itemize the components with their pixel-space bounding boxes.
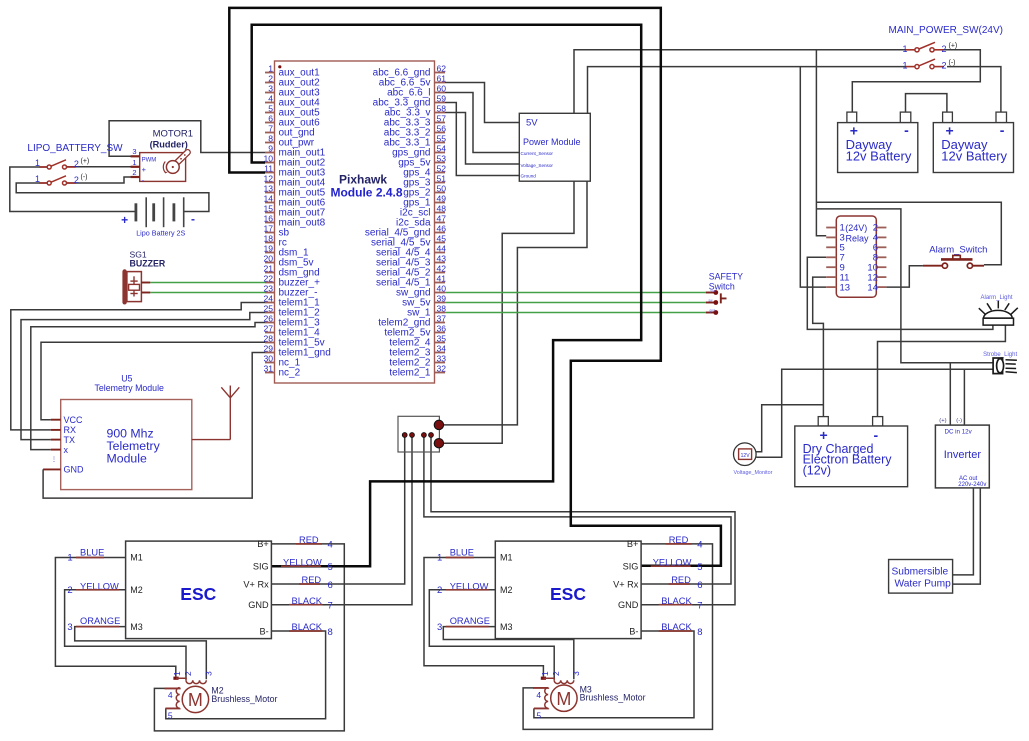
svg-text:20: 20 — [263, 254, 273, 264]
wire switch row2 to Dayway battery2 - — [947, 67, 1001, 113]
pixhawk pin 2 aux_out2 — [265, 82, 275, 84]
pixhawk pin 46 serial_4/5_gnd — [435, 232, 446, 234]
wire MAIN- branch down to relay pin13 — [800, 67, 826, 288]
svg-text:33: 33 — [437, 354, 447, 364]
svg-text:M: M — [188, 690, 203, 710]
svg-text:M2: M2 — [500, 585, 513, 595]
wire pixhawk pin61 to 5V module — [445, 83, 519, 123]
wire ESC1 M1 to motor M2 coil pin1 — [55, 558, 175, 677]
wire MAIN+ branch to alarm switch right terminal — [816, 202, 1001, 264]
svg-text:ORANGE: ORANGE — [80, 616, 120, 626]
pixhawk pin 59 abc_3.3_gnd — [435, 102, 446, 104]
svg-text:Inverter: Inverter — [944, 449, 982, 461]
relay pin 2 — [876, 227, 886, 229]
svg-text:B+: B+ — [257, 539, 269, 549]
wire LIPO switch row2 pin1 to Lipo battery - — [16, 183, 209, 212]
svg-text:42: 42 — [437, 264, 447, 274]
pixhawk pin 37 telem2_gnd — [435, 322, 446, 324]
svg-text:8: 8 — [268, 134, 273, 144]
svg-text:19: 19 — [263, 244, 273, 254]
wire ESC2 B+ to motor M3 pin4 — [523, 544, 712, 730]
svg-text:2: 2 — [437, 585, 442, 596]
wire relay pin11 to Dry battery + — [813, 277, 827, 417]
wire ESC2 B- to motor M3 pin5 — [534, 631, 694, 718]
svg-text:(+): (+) — [949, 43, 958, 50]
svg-text:18: 18 — [263, 234, 273, 244]
U? 5V Power Module body — [519, 113, 590, 181]
relay pin 3 — [826, 236, 836, 238]
wire pixhawk pin9 main_out1 to MOTOR1 PWM loop — [109, 121, 265, 157]
svg-text:5: 5 — [697, 562, 702, 573]
motor M2 pin1 dot — [173, 677, 178, 680]
svg-text:14: 14 — [867, 282, 878, 293]
svg-text:(+): (+) — [939, 418, 946, 424]
pixhawk pin 62 abc_6.6_gnd — [435, 72, 446, 74]
pixhawk pin 1 aux_out1 — [265, 72, 275, 74]
wire ESC2 M2 to motor M3 coil pin2 — [429, 590, 554, 680]
pixhawk pin 28 telem1_5v — [265, 342, 275, 344]
wire pixhawk pin26 telem1_3 to telemetry x — [31, 323, 265, 450]
wire pixhawk pin60 to 5V module Current_Sensor — [445, 93, 519, 153]
svg-text:49: 49 — [437, 194, 447, 204]
svg-text:B-: B- — [260, 626, 269, 636]
svg-text:5: 5 — [536, 711, 541, 721]
svg-text:4: 4 — [536, 690, 541, 700]
svg-text:4: 4 — [168, 690, 173, 700]
svg-text:10: 10 — [263, 154, 273, 164]
svg-text:+: + — [121, 213, 128, 227]
wire MAIN_POWER switch row2 (-) to 5V module top — [588, 67, 907, 114]
svg-text:17: 17 — [263, 224, 273, 234]
battery BT3 Dry Charged Electron Battery (12v) — [818, 417, 828, 426]
pixhawk pin 36 telem2_5v — [435, 332, 446, 334]
svg-text:(12v): (12v) — [803, 463, 831, 477]
svg-text:32: 32 — [437, 364, 447, 374]
wire pixhawk pin59 to 5V module Ground — [445, 103, 519, 176]
junction small dots — [402, 433, 407, 438]
svg-text:Ground: Ground — [521, 173, 537, 178]
svg-text:35: 35 — [437, 334, 447, 344]
svg-text:1: 1 — [172, 671, 182, 676]
pixhawk pin 47 i2c_sda — [435, 222, 446, 224]
svg-text:45: 45 — [437, 234, 447, 244]
wire pixhawk pin24 telem1_1 to telemetry RX — [11, 303, 265, 430]
svg-text:M2: M2 — [130, 585, 143, 595]
relay pin 4 — [876, 236, 886, 238]
svg-text:Power Module: Power Module — [523, 137, 581, 147]
svg-text:24: 24 — [263, 294, 273, 304]
telemetry pin x — [51, 449, 61, 451]
junction block body — [398, 416, 439, 452]
svg-text:1: 1 — [540, 671, 550, 676]
svg-text:Alarm_Light: Alarm_Light — [981, 295, 1013, 301]
motor M3 pin1 dot — [541, 677, 546, 680]
svg-text:x: x — [64, 445, 69, 455]
svg-text:GND: GND — [64, 465, 85, 475]
pixhawk pin 50 gps_2 — [435, 192, 446, 194]
battery BT1 Dayway 12v Battery — [847, 112, 857, 123]
svg-text:-: - — [1000, 122, 1005, 138]
svg-text:GND: GND — [248, 600, 269, 610]
pixhawk pin 8 out_pwr — [265, 142, 275, 144]
pixhawk pin 40 sw_gnd — [435, 292, 446, 294]
svg-text:PWM: PWM — [142, 157, 157, 163]
pixhawk pin 55 abc_3.3_1 — [435, 142, 446, 144]
ESC1 body — [126, 541, 272, 639]
svg-text:Brushless_Motor: Brushless_Motor — [580, 693, 646, 703]
svg-text:ESC: ESC — [180, 584, 216, 604]
svg-text:telem2_1: telem2_1 — [389, 367, 431, 378]
svg-text:1: 1 — [35, 158, 40, 168]
wire ESC2 GND to junction dot D — [431, 435, 735, 605]
pixhawk pin 39 sw_5v — [435, 302, 446, 304]
svg-text:3: 3 — [203, 671, 213, 676]
svg-text:7: 7 — [697, 601, 702, 612]
wire strobe lower branch to Inverter (-) — [963, 369, 965, 425]
svg-text:29: 29 — [263, 344, 273, 354]
svg-text:57: 57 — [437, 114, 447, 124]
pixhawk pin 33 telem2_2 — [435, 362, 446, 364]
wire Alarm_Light terminal 2 to Dry battery - — [878, 325, 1006, 417]
svg-text:M3: M3 — [130, 622, 143, 632]
svg-text:9: 9 — [268, 144, 273, 154]
svg-text:ORANGE: ORANGE — [450, 616, 490, 626]
svg-text:16: 16 — [263, 214, 273, 224]
svg-text:BUZZER: BUZZER — [130, 259, 166, 269]
wire pixhawk pin29 telem1_gnd to telemetry GND loop — [43, 353, 265, 499]
svg-text:3: 3 — [437, 622, 442, 633]
svg-text:6: 6 — [268, 114, 273, 124]
svg-text:37: 37 — [437, 314, 447, 324]
wire 5V module bottom pin1 to junction dot F — [439, 181, 574, 443]
relay pin 1 — [826, 227, 836, 229]
pixhawk pin 16 main_out8 — [265, 222, 275, 224]
svg-text:-: - — [191, 212, 195, 226]
motor M3 pin5 stub — [534, 707, 548, 709]
svg-text:Water Pump: Water Pump — [895, 579, 952, 590]
svg-text:3: 3 — [571, 671, 581, 676]
svg-text:1: 1 — [902, 61, 907, 71]
svg-text:60: 60 — [437, 84, 447, 94]
svg-text:(-): (-) — [81, 174, 88, 181]
svg-text:62: 62 — [437, 64, 447, 74]
svg-text:RX: RX — [64, 425, 77, 435]
svg-text:6: 6 — [328, 580, 333, 591]
wire green sw_1 pin38 to SAFETY switch — [445, 312, 706, 314]
svg-text:V+ Rx: V+ Rx — [243, 579, 269, 589]
telemetry pin RX — [51, 429, 61, 431]
wire ESC2 M3 to motor M3 coil pin3 — [443, 627, 574, 680]
svg-text:12v Battery: 12v Battery — [846, 148, 912, 163]
wire pixhawk pin25 telem1_2 to telemetry TX — [21, 313, 265, 440]
svg-text:44: 44 — [437, 244, 447, 254]
pixhawk pin 18 rc — [265, 242, 275, 244]
svg-text:Alarm_Switch: Alarm_Switch — [929, 245, 987, 256]
svg-text:sw: sw — [709, 298, 714, 302]
wire LIPO switch row1 to motor pin1 — [67, 166, 140, 168]
svg-text:54: 54 — [437, 144, 447, 154]
motor M3 pin4 stub — [533, 687, 548, 689]
svg-text:1: 1 — [67, 553, 72, 564]
svg-text:Lipo Battery 2S: Lipo Battery 2S — [136, 228, 185, 237]
pixhawk pin 41 serial_4/5_1 — [435, 282, 446, 284]
svg-text:7: 7 — [268, 124, 273, 134]
svg-text:220v-240v: 220v-240v — [958, 482, 986, 488]
relay K1 (24V) Relay body — [836, 216, 876, 297]
relay pin 8 — [876, 256, 886, 258]
svg-text:4: 4 — [697, 540, 702, 551]
pixhawk pin 31 nc_2 — [265, 372, 275, 374]
pixhawk pin 22 buzzer_+ — [265, 282, 275, 284]
junction big dot F — [434, 439, 443, 448]
svg-text:41: 41 — [437, 274, 447, 284]
inverter body — [935, 425, 989, 488]
pixhawk pin 51 gps_3 — [435, 182, 446, 184]
pixhawk pin 34 telem2_3 — [435, 352, 446, 354]
wire relay pin7 to Alarm_Light terminal 1 — [807, 257, 993, 329]
svg-text:(-): (-) — [956, 418, 962, 424]
svg-text:12v Battery: 12v Battery — [941, 148, 1007, 163]
relay pin 14 — [876, 286, 886, 288]
wire ESC1 GND to junction dot B — [271, 435, 412, 605]
relay pin 13 — [826, 286, 836, 288]
svg-text:-: - — [904, 122, 909, 138]
wire Dayway battery series link — [906, 94, 947, 113]
wire ESC1 B- to motor M2 pin5 — [166, 631, 326, 719]
svg-text:2: 2 — [132, 168, 136, 177]
svg-text:22: 22 — [263, 274, 273, 284]
telemetry pin GND — [43, 468, 61, 470]
svg-text:(24V): (24V) — [845, 223, 867, 233]
svg-text:25: 25 — [263, 304, 273, 314]
svg-text:40: 40 — [437, 284, 447, 294]
svg-text:SAFETY: SAFETY — [709, 271, 743, 281]
svg-text:13: 13 — [263, 184, 273, 194]
svg-text:28: 28 — [263, 334, 273, 344]
wire ESC2 M1 to motor M3 coil pin1 — [424, 558, 543, 677]
svg-text:8: 8 — [328, 627, 333, 638]
pixhawk pin 12 main_out4 — [265, 182, 275, 184]
svg-text:1: 1 — [437, 553, 442, 564]
svg-text:12: 12 — [263, 174, 273, 184]
wire switch row1 to Dayway battery1 + — [852, 50, 980, 112]
svg-text:56: 56 — [437, 124, 447, 134]
pixhawk pin 52 gps_4 — [435, 172, 446, 174]
IC U? Pixhawk Module 2.4.8 body — [275, 61, 435, 383]
svg-text:2: 2 — [74, 159, 79, 169]
svg-text:13: 13 — [840, 282, 851, 293]
wire pixhawk pin58 to 5V module Voltage_Sensor — [445, 113, 519, 165]
svg-text:Current_Sensor: Current_Sensor — [521, 151, 554, 156]
pixhawk pin 49 gps_1 — [435, 202, 446, 204]
wire ESC2 V+Rx to junction dot C — [424, 435, 731, 584]
pixhawk pin 20 dsm_5v — [265, 262, 275, 264]
pixhawk pin 48 i2c_scl — [435, 212, 446, 214]
svg-text:1: 1 — [268, 64, 273, 74]
svg-text:(+): (+) — [81, 158, 90, 165]
svg-text:DC in 12v: DC in 12v — [945, 429, 973, 436]
svg-text:50: 50 — [437, 184, 447, 194]
svg-text:14: 14 — [263, 194, 273, 204]
motor MOTOR1 pin 3 PWM — [131, 155, 140, 157]
svg-text:MAIN_POWER_SW(24V): MAIN_POWER_SW(24V) — [889, 25, 1003, 36]
buzzer pin + — [141, 282, 150, 284]
pixhawk pin 35 telem2_4 — [435, 342, 446, 344]
svg-text:ESC: ESC — [550, 584, 586, 604]
pixhawk pin 32 telem2_1 — [435, 372, 446, 374]
pixhawk pin 4 aux_out4 — [265, 102, 275, 104]
battery BT2 Dayway 12v Battery — [943, 112, 953, 123]
pixhawk pin 29 telem1_gnd — [265, 352, 275, 354]
svg-text:51: 51 — [437, 174, 447, 184]
pixhawk pin 17 sb — [265, 232, 275, 234]
svg-text:47: 47 — [437, 214, 447, 224]
svg-text:LIPO_BATTERY_SW: LIPO_BATTERY_SW — [27, 143, 123, 154]
wire ESC1 M3 to motor M2 coil pin3 — [75, 627, 207, 680]
svg-text:12V: 12V — [741, 453, 751, 459]
svg-text:15: 15 — [263, 204, 273, 214]
svg-text:2: 2 — [74, 175, 79, 185]
svg-text:3: 3 — [67, 622, 72, 633]
svg-text:Voltage_Sensor: Voltage_Sensor — [521, 163, 554, 168]
svg-text:vcc: vcc — [711, 289, 716, 293]
wire pixhawk pin28 telem1_5v to telemetry VCC — [41, 342, 265, 419]
pixhawk pin 14 main_out6 — [265, 202, 275, 204]
svg-text:34: 34 — [437, 344, 447, 354]
pixhawk pin 21 dsm_gnd — [265, 272, 275, 274]
svg-text:M: M — [556, 689, 571, 709]
svg-text:4: 4 — [328, 540, 333, 551]
svg-text:GND: GND — [618, 600, 639, 610]
pixhawk pin 13 main_out5 — [265, 192, 275, 194]
switch MAIN_POWER_SW row1 — [906, 49, 915, 51]
junction big dot E — [434, 420, 443, 429]
relay pin 10 — [876, 266, 886, 268]
svg-text:Module 2.4.8: Module 2.4.8 — [330, 186, 402, 200]
svg-text:U5: U5 — [121, 374, 132, 384]
pixhawk pin 25 telem1_2 — [265, 312, 275, 314]
svg-text:(-): (-) — [949, 59, 956, 66]
svg-text:2: 2 — [551, 671, 561, 676]
motor MOTOR1 pin 1 + — [131, 166, 140, 168]
svg-text:M1: M1 — [500, 553, 513, 563]
svg-text:36: 36 — [437, 324, 447, 334]
svg-text:59: 59 — [437, 94, 447, 104]
svg-text:43: 43 — [437, 254, 447, 264]
wire thick pixhawk pin11 main_out3 to ESC2 SIG — [229, 8, 721, 566]
relay pin 7 — [826, 256, 836, 258]
svg-text:-: - — [142, 175, 145, 185]
motor M2 pin4 stub — [165, 687, 180, 690]
svg-text:+: + — [142, 165, 147, 174]
pixhawk pin 9 main_out1 — [265, 152, 275, 154]
svg-text:VCC: VCC — [64, 415, 84, 425]
svg-text:30: 30 — [263, 354, 273, 364]
pixhawk pin 61 abc_6.6_5v — [435, 82, 446, 84]
motor M3 Brushless_Motor — [551, 685, 577, 711]
svg-text:TX: TX — [64, 435, 76, 445]
pixhawk pin 43 serial_4/5_3 — [435, 262, 446, 264]
telemetry pin VCC — [51, 419, 61, 421]
wire Dry battery + branch to Voltage_Monitor — [756, 405, 823, 452]
svg-text:1: 1 — [132, 158, 136, 167]
svg-text:Brushless_Motor: Brushless_Motor — [211, 694, 277, 704]
motor MOTOR1 pin 2 - — [131, 176, 140, 178]
relay pin 12 — [876, 276, 886, 278]
svg-text:5: 5 — [328, 562, 333, 573]
svg-text:BLUE: BLUE — [450, 548, 474, 558]
svg-text:⋮: ⋮ — [51, 457, 57, 463]
pixhawk pin 15 main_out7 — [265, 212, 275, 214]
pixhawk pin 7 out_gnd — [265, 132, 275, 134]
meter Voltage_Monitor 12V — [734, 443, 757, 466]
svg-text:BLUE: BLUE — [80, 548, 104, 558]
pixhawk pin 23 buzzer_- — [265, 292, 275, 294]
svg-text:Module: Module — [107, 451, 147, 465]
svg-text:2: 2 — [67, 585, 72, 596]
wire green sw_gnd pin40 to SAFETY switch — [445, 292, 706, 294]
motor M2 pin5 stub — [165, 707, 179, 709]
svg-text:26: 26 — [263, 314, 273, 324]
wire green buzzer_- pixhawk pin23 — [150, 292, 265, 294]
ESC2 body — [495, 541, 641, 639]
pixhawk pin 53 gps_5v — [435, 162, 446, 164]
svg-text:5V: 5V — [526, 118, 538, 129]
pixhawk pin 44 serial_4/5_4 — [435, 252, 446, 254]
svg-text:Strobe_Light: Strobe_Light — [983, 352, 1017, 358]
svg-text:21: 21 — [263, 264, 273, 274]
relay pin 6 — [876, 246, 886, 248]
svg-text:2: 2 — [942, 44, 947, 54]
pixhawk pin 60 abc_6.6_l — [435, 92, 446, 94]
svg-text:SIG: SIG — [623, 562, 639, 572]
wire green buzzer_+ pixhawk pin22 — [150, 282, 265, 284]
svg-text:2: 2 — [942, 61, 947, 71]
pixhawk pin 24 telem1_1 — [265, 302, 275, 304]
svg-text:52: 52 — [437, 164, 447, 174]
svg-text:7: 7 — [328, 601, 333, 612]
pixhawk pin 6 aux_out6 — [265, 122, 275, 124]
svg-text:gnd: gnd — [710, 308, 716, 312]
antenna — [192, 386, 240, 440]
wire strobe branch to Inverter (+) — [949, 363, 951, 425]
svg-text:11: 11 — [264, 164, 273, 174]
pixhawk pin 3 aux_out3 — [265, 92, 275, 94]
wire ESC1 V+Rx to junction dot A — [271, 435, 404, 584]
svg-text:+: + — [820, 427, 828, 443]
relay pin 5 — [826, 246, 836, 248]
pixhawk pin 19 dsm_1 — [265, 252, 275, 254]
svg-text:1: 1 — [902, 44, 907, 54]
wire thick pixhawk pin10 main_out2 to ESC1 SIG — [252, 25, 642, 567]
svg-text:Relay: Relay — [845, 234, 869, 244]
wire ESC1 B+ to motor M2 pin4 — [154, 544, 344, 731]
pixhawk pin 57 abc_3.3_3 — [435, 122, 446, 124]
svg-text:4: 4 — [268, 94, 273, 104]
svg-text:SIG: SIG — [253, 562, 269, 572]
svg-text:MOTOR1: MOTOR1 — [153, 128, 193, 139]
wire LIPO switch row1 pin1 to Lipo battery + — [10, 167, 136, 212]
wire MAIN_POWER switch row1 (+) to 5V module top — [574, 50, 906, 114]
switch MAIN_POWER_SW row2 — [906, 66, 915, 68]
svg-text:5: 5 — [268, 104, 273, 114]
svg-text:-: - — [874, 427, 879, 443]
telemetry pin TX — [51, 439, 61, 441]
pixhawk pin 56 abc_3.3_2 — [435, 132, 446, 134]
svg-text:23: 23 — [263, 284, 273, 294]
wire ESC1 M2 to motor M2 coil pin2 — [65, 590, 186, 680]
wire Inverter AC out to Submersible Water Pump — [953, 488, 974, 575]
